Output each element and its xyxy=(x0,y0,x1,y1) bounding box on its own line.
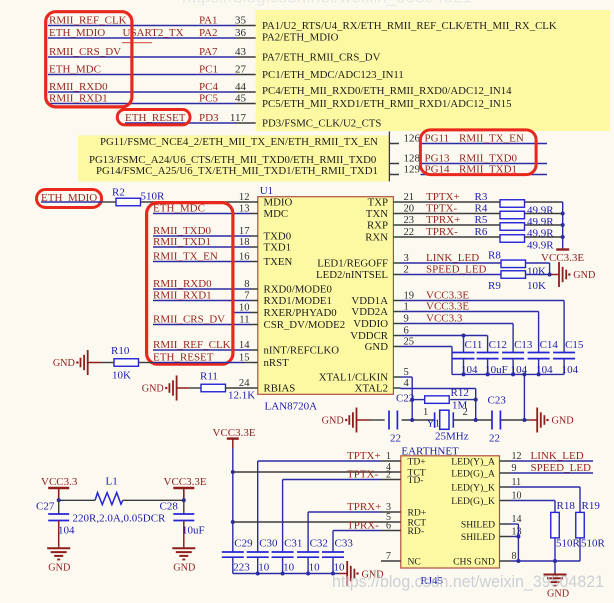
resistor R10 xyxy=(114,359,139,367)
capacitor C23 22pF xyxy=(491,411,493,430)
sheet symbol MCU PG port block xyxy=(78,136,389,182)
wire U1 pin5 XTAL1 xyxy=(401,376,413,378)
svg-text:VCC3.3: VCC3.3 xyxy=(41,476,78,488)
svg-text:10: 10 xyxy=(334,562,346,574)
wire net RMII_CRS_DV xyxy=(153,324,251,326)
junction xyxy=(561,212,565,216)
svg-text:510R: 510R xyxy=(581,538,606,550)
svg-text:L1: L1 xyxy=(106,476,118,488)
crystal Y1 25MHz xyxy=(434,412,436,427)
svg-text:10: 10 xyxy=(309,562,321,574)
wire net RMII_TXD1 xyxy=(153,246,251,248)
svg-text:VCC3.3E: VCC3.3E xyxy=(426,300,469,312)
svg-text:PC1: PC1 xyxy=(199,63,218,75)
wire net TPRX- to RJ45 xyxy=(333,530,381,532)
wire CHS GND row xyxy=(510,560,580,562)
svg-text:R3: R3 xyxy=(475,191,488,203)
annotation box around RMII net labels xyxy=(46,12,132,107)
wire L1 to VCC3.3E node xyxy=(123,499,184,501)
svg-text:TPTX-: TPTX- xyxy=(347,468,379,480)
wire net RMII_TXD0 xyxy=(153,235,251,237)
junction xyxy=(182,498,186,502)
svg-text:220R,2.0A,0.05DCR: 220R,2.0A,0.05DCR xyxy=(73,513,167,525)
resistor R9 10K xyxy=(501,271,526,279)
svg-text:35: 35 xyxy=(235,14,247,26)
svg-text:PC5: PC5 xyxy=(199,92,218,104)
capacitor C29 223 xyxy=(222,551,244,553)
svg-text:126: 126 xyxy=(404,132,421,144)
svg-text:RMII_CRS_DV: RMII_CRS_DV xyxy=(49,46,121,58)
svg-text:R19: R19 xyxy=(582,500,601,512)
svg-text:TXN: TXN xyxy=(366,208,388,220)
svg-text:C15: C15 xyxy=(565,339,584,351)
svg-text:510R: 510R xyxy=(141,191,166,203)
svg-text:ETH_MDIO: ETH_MDIO xyxy=(49,27,105,39)
svg-text:LED(G)_A: LED(G)_A xyxy=(451,468,495,479)
svg-text:R11: R11 xyxy=(200,370,218,382)
svg-text:GND: GND xyxy=(573,270,595,281)
svg-text:https://blog.csdn.net/weixin_3: https://blog.csdn.net/weixin_39504821 xyxy=(182,0,472,7)
wire R18 to gnd row xyxy=(554,538,556,561)
svg-text:43: 43 xyxy=(235,46,247,58)
svg-text:10K: 10K xyxy=(527,266,546,278)
svg-text:VDDIO: VDDIO xyxy=(353,318,388,330)
svg-text:GND: GND xyxy=(53,358,75,369)
junction xyxy=(462,334,466,338)
svg-text:2: 2 xyxy=(463,407,468,418)
svg-text:PA2/ETH_MDIO: PA2/ETH_MDIO xyxy=(262,32,339,44)
svg-text:https://blog.csdn.net/weixin_3: https://blog.csdn.net/weixin_39504821 xyxy=(332,573,604,591)
svg-text:44: 44 xyxy=(235,81,247,93)
capacitor C32 10 xyxy=(297,551,319,553)
wire net RMII_TXD0 xyxy=(421,163,548,165)
wire shield pins to gnd xyxy=(510,523,518,525)
svg-text:GND: GND xyxy=(142,384,164,395)
wire R6 to VCC3.3E rail xyxy=(525,236,563,238)
capacitor C30 10 xyxy=(247,551,269,553)
resistor R2 xyxy=(116,198,141,206)
wire net TPRX+ to RJ45 xyxy=(308,511,381,513)
sheet symbol PG block right edge xyxy=(388,132,390,182)
svg-text:PC5/ETH_MII_RXD1/ETH_RMII_RXD1: PC5/ETH_MII_RXD1/ETH_RMII_RXD1/ADC12_IN1… xyxy=(262,98,512,110)
svg-text:PA7: PA7 xyxy=(199,46,218,58)
wire U1 pin4 XTAL2 xyxy=(401,388,476,390)
pin stub PC1 xyxy=(236,74,256,76)
capacitor C31 10 xyxy=(272,551,294,553)
wire RCT xyxy=(233,521,381,523)
wire gnd drop xyxy=(554,561,556,573)
svg-text:TXD1: TXD1 xyxy=(264,242,292,254)
sheet symbol MCU port block (top right) xyxy=(256,10,610,131)
svg-text:TPRX+: TPRX+ xyxy=(426,214,460,226)
wire net ETH_MDC to PC1 xyxy=(48,74,236,76)
capacitor C11 104 xyxy=(453,352,475,354)
svg-text:VDD2A: VDD2A xyxy=(351,306,388,318)
svg-text:GND: GND xyxy=(552,416,574,427)
svg-text:PD3/FSMC_CLK/U2_CTS: PD3/FSMC_CLK/U2_CTS xyxy=(262,118,381,130)
svg-text:C27: C27 xyxy=(36,501,55,513)
svg-text:22: 22 xyxy=(390,433,401,445)
svg-text:PA7/ETH_RMII_CRS_DV: PA7/ETH_RMII_CRS_DV xyxy=(262,52,381,64)
svg-text:25MHz: 25MHz xyxy=(435,431,469,443)
svg-text:XTAL2: XTAL2 xyxy=(355,383,388,395)
svg-text:GND: GND xyxy=(173,562,195,573)
wire VCC3.3E to C29 xyxy=(232,439,234,449)
wire net RMII_TX_EN xyxy=(421,143,548,145)
svg-text:223: 223 xyxy=(233,562,250,574)
svg-text:RMII_REF_CLK: RMII_REF_CLK xyxy=(49,14,127,26)
svg-text:C11: C11 xyxy=(465,339,483,351)
wire R12 branch xyxy=(412,399,425,401)
svg-text:RD-: RD- xyxy=(408,526,425,537)
wire VDD2A VCC3.3E to C14 xyxy=(401,311,539,313)
junction xyxy=(522,418,526,422)
pin stub PG13 xyxy=(389,163,399,165)
svg-text:PD3: PD3 xyxy=(199,112,219,124)
svg-text:R4: R4 xyxy=(475,202,488,214)
svg-text:SHILED: SHILED xyxy=(461,519,495,530)
resistor R18 510R xyxy=(551,512,560,538)
capacitor C22 22pF xyxy=(388,411,390,430)
svg-text:TXP: TXP xyxy=(368,197,388,209)
wire C22 to Y1 node 1 xyxy=(402,419,435,421)
annotation box around PG net labels xyxy=(420,130,536,175)
wire net RMII_REF_CLK xyxy=(153,349,251,351)
svg-text:10K: 10K xyxy=(527,280,546,292)
svg-text:C28: C28 xyxy=(160,501,179,513)
earth ground below RJ45 xyxy=(554,573,556,575)
power port VCC3.3E (termination rail) xyxy=(556,248,569,250)
svg-text:117: 117 xyxy=(230,112,247,124)
capacitor C15 104 xyxy=(553,352,575,354)
svg-text:10uF: 10uF xyxy=(182,525,205,537)
svg-text:SHILED: SHILED xyxy=(461,532,495,543)
svg-text:PG11/FSMC_NCE4_2/ETH_MII_TX_EN: PG11/FSMC_NCE4_2/ETH_MII_TX_EN/ETH_RMII_… xyxy=(100,136,378,148)
svg-text:SPEED_LED: SPEED_LED xyxy=(426,263,487,275)
svg-text:VCC3.3E: VCC3.3E xyxy=(541,252,584,264)
wire net RMII_REF_CLK to PA1 xyxy=(48,25,236,27)
junction xyxy=(462,372,466,376)
svg-text:LED(G)_K: LED(G)_K xyxy=(451,496,495,507)
wire VCC3.3E pull rail vertical xyxy=(562,202,564,249)
wire R5 to VCC3.3E rail xyxy=(525,224,563,226)
wire pin10 to R18 xyxy=(510,500,555,502)
svg-text:36: 36 xyxy=(235,27,247,39)
svg-text:4: 4 xyxy=(404,378,410,389)
svg-text:10K: 10K xyxy=(112,370,131,382)
wire R9 to GND xyxy=(526,274,552,276)
svg-text:SPEED_LED: SPEED_LED xyxy=(531,462,592,474)
svg-text:RMII_TXD1: RMII_TXD1 xyxy=(153,236,211,248)
svg-text:LED(Y)_A: LED(Y)_A xyxy=(451,456,495,467)
wire net RMII_RXD0 to PC4 xyxy=(48,91,236,93)
svg-text:VCC3.3: VCC3.3 xyxy=(426,312,463,324)
svg-text:C30: C30 xyxy=(259,537,278,549)
svg-text:2: 2 xyxy=(386,470,391,481)
resistor R11 xyxy=(201,384,226,392)
wire net ETH_RESET xyxy=(153,362,244,364)
svg-text:C29: C29 xyxy=(234,537,253,549)
svg-text:ETH_RESET: ETH_RESET xyxy=(153,351,214,363)
wire VCC3.3 node to L1 xyxy=(59,499,95,501)
svg-text:ETH_MDC: ETH_MDC xyxy=(49,63,101,75)
wire net RMII_RXD0 xyxy=(153,288,251,290)
svg-text:LAN8720A: LAN8720A xyxy=(265,401,318,413)
svg-text:129: 129 xyxy=(404,163,421,175)
svg-text:TXEN: TXEN xyxy=(264,256,293,268)
wire net RMII_RXD1 to PC5 xyxy=(48,103,236,105)
svg-text:R8: R8 xyxy=(488,250,501,262)
capacitor C33 10 xyxy=(322,551,344,553)
wire VDD1A VCC3.3E to C15 xyxy=(401,300,565,302)
junction xyxy=(57,498,61,502)
wire R3 to VCC3.3E rail xyxy=(525,201,563,203)
wire U1 pin3 to R8 xyxy=(401,262,502,264)
wire R11 to U1 pin 24 xyxy=(226,387,251,389)
annotation box around U1 RMII labels xyxy=(147,203,233,365)
wire net ETH_RESET to PD3 xyxy=(125,122,236,124)
pin stub PA7 xyxy=(236,56,256,58)
svg-text:R18: R18 xyxy=(557,500,576,512)
svg-text:C22: C22 xyxy=(396,393,414,405)
svg-text:1: 1 xyxy=(386,451,391,462)
resistor R6 49.9R xyxy=(500,235,525,243)
svg-text:C13: C13 xyxy=(514,339,533,351)
pin stub PG11 xyxy=(389,143,399,145)
wire VDDCR to C11 C12 xyxy=(401,335,488,337)
capacitor C27 104 xyxy=(58,500,60,514)
junction xyxy=(516,559,520,563)
pin stub PD3 xyxy=(236,122,256,124)
power ground GND right of crystal xyxy=(529,419,537,421)
wire C23 to GND xyxy=(500,419,529,421)
svg-text:R10: R10 xyxy=(111,345,130,357)
svg-text:nINT/REFCLKO: nINT/REFCLKO xyxy=(264,345,340,357)
svg-text:PA2: PA2 xyxy=(199,27,218,39)
svg-text:22: 22 xyxy=(489,433,500,445)
svg-text:MDC: MDC xyxy=(264,208,289,220)
junction xyxy=(231,470,235,474)
svg-text:RXD1/MODE1: RXD1/MODE1 xyxy=(264,295,332,307)
power ground GND at R8 R9 xyxy=(551,274,559,276)
svg-text:49.9R: 49.9R xyxy=(527,205,554,217)
junction node 1 xyxy=(410,418,414,422)
svg-text:R6: R6 xyxy=(475,226,488,238)
wire Y1 to node 2 xyxy=(453,419,492,421)
pin stub PC5 xyxy=(236,103,256,105)
wire SPEED_LED xyxy=(510,472,593,474)
svg-text:R2: R2 xyxy=(112,186,125,198)
wire net RMII_TX_EN xyxy=(153,261,251,263)
svg-text:Y1: Y1 xyxy=(427,418,440,430)
capacitor C14 104 xyxy=(528,352,550,354)
wire TCT xyxy=(233,471,381,473)
svg-text:CHS GND: CHS GND xyxy=(453,556,495,567)
svg-text:TD-: TD- xyxy=(408,475,424,486)
wire cap ground rail xyxy=(233,573,340,575)
resistor R4 49.9R xyxy=(500,211,525,219)
svg-text:PA1/U2_RTS/U4_RX/ETH_RMII_REF_: PA1/U2_RTS/U4_RX/ETH_RMII_REF_CLK/ETH_MI… xyxy=(262,20,557,32)
svg-text:RMII_TX_EN: RMII_TX_EN xyxy=(459,132,524,144)
net label oval ETH_MDIO xyxy=(37,190,102,208)
wire ETH_MDIO to R2 xyxy=(102,201,116,203)
svg-text:1: 1 xyxy=(423,407,428,418)
wire GND to C22 xyxy=(370,419,385,421)
svg-text:U1: U1 xyxy=(260,185,273,197)
junction xyxy=(548,273,552,277)
wire net TPTX- to RJ45 xyxy=(283,479,381,481)
earth ground under C28 xyxy=(183,546,185,548)
svg-text:RMII_RXD0: RMII_RXD0 xyxy=(49,81,108,93)
junction xyxy=(516,535,520,539)
svg-text:PC4/ETH_MII_RXD0/ETH_RMII_RXD0: PC4/ETH_MII_RXD0/ETH_RMII_RXD0/ADC12_IN1… xyxy=(262,85,512,97)
svg-text:R12: R12 xyxy=(451,387,469,399)
resistor R12 1M xyxy=(425,396,450,404)
svg-text:TPTX+: TPTX+ xyxy=(347,450,381,462)
svg-text:RXN: RXN xyxy=(365,232,388,244)
svg-text:GND: GND xyxy=(48,562,70,573)
svg-text:PG11: PG11 xyxy=(425,132,450,144)
svg-text:GND: GND xyxy=(365,341,389,353)
svg-text:10: 10 xyxy=(283,562,295,574)
svg-text:RXER/PHYAD0: RXER/PHYAD0 xyxy=(264,307,337,319)
wire R19 to gnd row xyxy=(579,538,581,561)
wire U1 to R5 xyxy=(401,224,501,226)
wire U1 to R6 xyxy=(401,236,501,238)
wire net TPTX+ to RJ45 xyxy=(258,460,381,462)
resistor R8 10K xyxy=(501,260,526,268)
wire GND to R10 xyxy=(101,362,114,364)
junction xyxy=(410,398,414,402)
svg-text:C31: C31 xyxy=(284,537,302,549)
svg-text:6: 6 xyxy=(386,521,391,532)
svg-text:PC1/ETH_MDC/ADC123_IN11: PC1/ETH_MDC/ADC123_IN11 xyxy=(262,69,404,81)
power ground GND at R11 xyxy=(177,387,190,389)
earth ground under C27 xyxy=(58,546,60,548)
pin stub PA1 xyxy=(236,25,256,27)
wire GND to R11 xyxy=(190,387,201,389)
svg-text:CSR_DV/MODE2: CSR_DV/MODE2 xyxy=(264,319,346,331)
conflict underline under USART2_TX xyxy=(122,42,152,44)
op IC U1 body xyxy=(258,197,394,395)
wire R4 to VCC3.3E rail xyxy=(525,213,563,215)
svg-text:45: 45 xyxy=(235,92,247,104)
junction xyxy=(256,572,260,576)
svg-text:GND: GND xyxy=(322,416,344,427)
svg-text:RMII_RXD1: RMII_RXD1 xyxy=(49,92,108,104)
wire cap rail to crystal gnd xyxy=(523,374,525,420)
svg-text:LED(Y)_K: LED(Y)_K xyxy=(451,482,495,493)
svg-text:10: 10 xyxy=(258,562,270,574)
svg-text:LED2/nINTSEL: LED2/nINTSEL xyxy=(316,269,388,281)
svg-text:C14: C14 xyxy=(540,339,559,351)
svg-text:RXD0/MODE0: RXD0/MODE0 xyxy=(264,284,332,296)
capacitor C12 10uF xyxy=(477,352,499,354)
svg-text:PA1: PA1 xyxy=(199,14,218,26)
annotation oval around ETH_RESET xyxy=(117,110,190,125)
wire pin11 to R19 xyxy=(510,486,580,488)
resistor R3 49.9R xyxy=(500,200,525,208)
power ground GND left of crystal xyxy=(357,419,370,421)
wire net ETH_MDC xyxy=(153,213,251,215)
svg-text:VCC3.3E: VCC3.3E xyxy=(213,427,256,439)
svg-text:510R: 510R xyxy=(556,538,581,550)
wire R10 to red box xyxy=(139,362,154,364)
pin stub PA2 xyxy=(236,37,256,39)
svg-text:7: 7 xyxy=(386,551,391,562)
wire U1 pin2 to R9 xyxy=(401,274,502,276)
pin stub PC4 xyxy=(236,91,256,93)
wire VDDIO VCC3.3 to C13 xyxy=(401,323,514,325)
svg-text:MDIO: MDIO xyxy=(264,197,293,209)
svg-text:RMII_CRS_DV: RMII_CRS_DV xyxy=(153,313,225,325)
wire net RMII_CRS_DV to PA7 xyxy=(48,56,236,58)
pin stub PG14 xyxy=(389,174,399,176)
svg-text:VCC3.3E: VCC3.3E xyxy=(164,476,207,488)
svg-text:RBIAS: RBIAS xyxy=(264,383,296,395)
svg-text:TD+: TD+ xyxy=(408,456,426,467)
wire R2 to U1 pin 12 xyxy=(141,201,251,203)
svg-text:PG14/FSMC_A25/U6_TX/ETH_MII_TX: PG14/FSMC_A25/U6_TX/ETH_MII_TXD1/ETH_RMI… xyxy=(96,165,378,177)
svg-text:RXP: RXP xyxy=(367,220,388,232)
wire net RMII_TXD1 xyxy=(421,174,548,176)
svg-text:LED1/REGOFF: LED1/REGOFF xyxy=(317,258,388,270)
capacitor C13 104 xyxy=(502,352,524,354)
wire net RMII_RXD1 xyxy=(153,300,251,302)
junction node 2 xyxy=(474,418,478,422)
svg-text:R5: R5 xyxy=(475,214,488,226)
power ground GND at cap rail xyxy=(339,573,347,575)
power ground GND at R10 xyxy=(88,362,101,364)
svg-text:TPRX+: TPRX+ xyxy=(347,501,381,513)
svg-text:RMII_RXD0: RMII_RXD0 xyxy=(153,278,212,290)
svg-text:nRST: nRST xyxy=(264,357,290,369)
svg-text:104: 104 xyxy=(58,525,75,537)
svg-text:LINK_LED: LINK_LED xyxy=(426,252,479,264)
resistor R19 510R xyxy=(576,512,585,538)
wire LINK_LED xyxy=(510,460,593,462)
svg-text:PC4: PC4 xyxy=(199,81,218,93)
svg-text:ETH_RESET: ETH_RESET xyxy=(125,112,186,124)
svg-text:C32: C32 xyxy=(310,537,328,549)
capacitor C28 10uF xyxy=(183,500,185,514)
wire U1 to R3 xyxy=(401,201,501,203)
svg-text:12.1K: 12.1K xyxy=(228,389,255,401)
wire R8 to gnd node xyxy=(526,262,550,264)
svg-text:R9: R9 xyxy=(488,280,501,292)
svg-text:TPRX-: TPRX- xyxy=(426,226,458,238)
connector J earthnet body xyxy=(401,456,500,568)
svg-text:27: 27 xyxy=(235,63,247,75)
svg-text:TPTX-: TPTX- xyxy=(426,202,458,214)
svg-text:C12: C12 xyxy=(489,339,507,351)
svg-text:NC: NC xyxy=(408,556,421,567)
resistor R5 49.9R xyxy=(500,223,525,231)
wire U1 GND pin25 to cap rail xyxy=(401,346,453,348)
wire U1 to R4 xyxy=(401,213,501,215)
wire net ETH_MDIO to PA2 xyxy=(48,37,236,39)
wire U1 pin 10 stub xyxy=(233,312,251,314)
svg-text:104: 104 xyxy=(562,364,579,376)
svg-text:49.9R: 49.9R xyxy=(527,216,554,228)
svg-text:C33: C33 xyxy=(335,537,354,549)
svg-text:TPTX+: TPTX+ xyxy=(426,191,460,203)
svg-text:LINK_LED: LINK_LED xyxy=(531,450,584,462)
wire ETH_MDIO underline xyxy=(41,201,102,203)
svg-text:C23: C23 xyxy=(488,395,507,407)
svg-text:RMII_TX_EN: RMII_TX_EN xyxy=(153,250,218,262)
svg-text:49.9R: 49.9R xyxy=(527,240,554,252)
